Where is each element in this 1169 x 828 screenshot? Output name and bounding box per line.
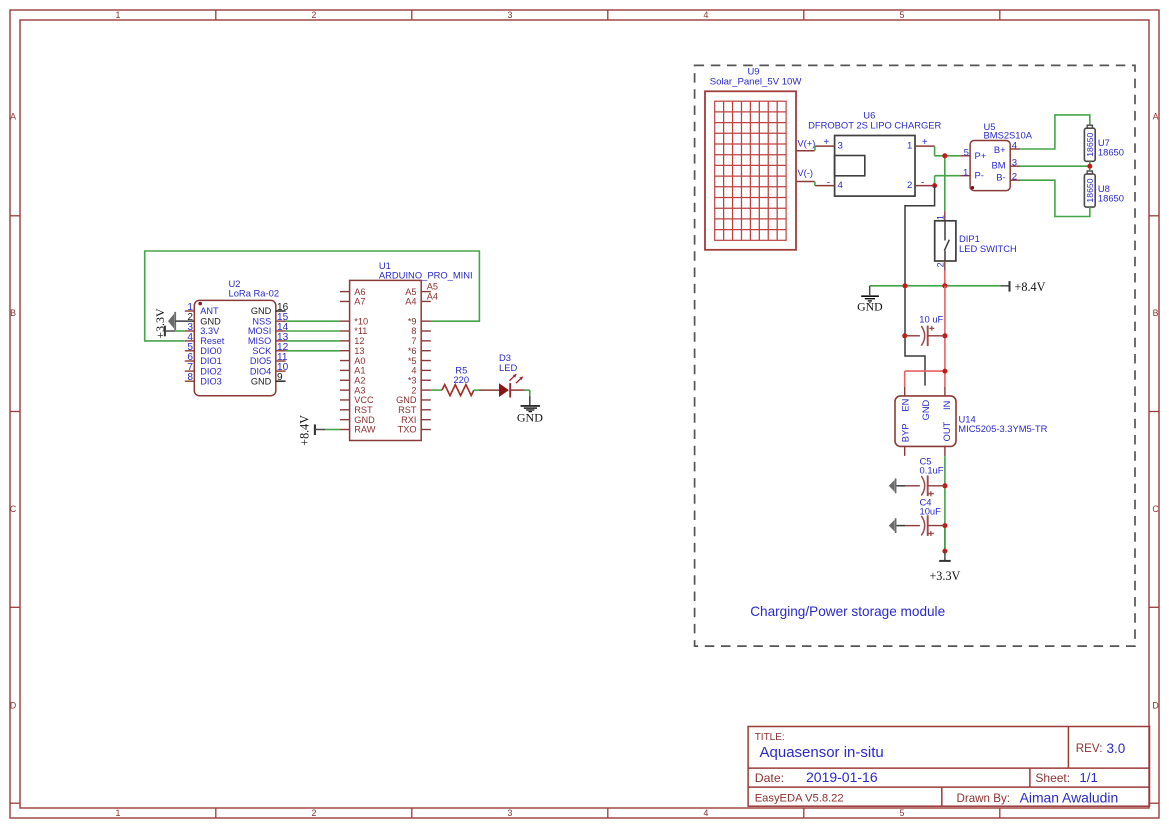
svg-text:10uF: 10uF — [920, 506, 942, 517]
svg-text:Sheet:: Sheet: — [1035, 771, 1070, 785]
svg-text:+8.4V: +8.4V — [1015, 280, 1046, 294]
svg-text:LED SWITCH: LED SWITCH — [959, 243, 1017, 254]
svg-text:B: B — [1153, 308, 1159, 318]
svg-text:1: 1 — [116, 808, 121, 818]
svg-text:4: 4 — [704, 808, 709, 818]
svg-text:A4: A4 — [427, 291, 438, 301]
svg-text:1: 1 — [907, 141, 912, 152]
svg-text:MISO: MISO — [248, 336, 271, 346]
svg-text:3.0: 3.0 — [1107, 741, 1126, 756]
svg-text:4: 4 — [411, 366, 416, 376]
svg-text:BM: BM — [992, 159, 1006, 170]
svg-text:GND: GND — [517, 411, 543, 425]
svg-text:8: 8 — [411, 326, 416, 336]
svg-text:OUT: OUT — [942, 421, 952, 441]
svg-text:A: A — [1153, 112, 1159, 122]
svg-text:EN: EN — [900, 399, 910, 412]
svg-text:*6: *6 — [408, 346, 417, 356]
svg-text:2: 2 — [935, 262, 945, 267]
svg-text:C: C — [1152, 504, 1159, 514]
svg-text:*10: *10 — [354, 316, 368, 326]
svg-text:GND: GND — [354, 415, 375, 425]
svg-text:ANT: ANT — [200, 306, 219, 316]
svg-text:P-: P- — [975, 170, 984, 181]
svg-text:3: 3 — [508, 10, 513, 20]
svg-text:-: - — [827, 177, 830, 188]
svg-text:A5: A5 — [405, 287, 416, 297]
svg-text:10 uF: 10 uF — [919, 314, 943, 325]
svg-text:2: 2 — [1012, 172, 1017, 183]
svg-text:A6: A6 — [354, 287, 365, 297]
svg-text:+: + — [922, 137, 928, 148]
svg-text:A1: A1 — [354, 366, 365, 376]
svg-text:REV:: REV: — [1076, 742, 1103, 755]
svg-text:4: 4 — [1012, 140, 1018, 151]
svg-text:0.1uF: 0.1uF — [920, 464, 944, 475]
svg-text:TITLE:: TITLE: — [755, 732, 785, 743]
svg-text:RST: RST — [398, 405, 417, 415]
svg-text:2: 2 — [411, 385, 416, 395]
svg-text:7: 7 — [411, 336, 416, 346]
svg-text:18650: 18650 — [1085, 178, 1095, 202]
svg-text:DIO5: DIO5 — [250, 356, 271, 366]
svg-text:EasyEDA V5.8.22: EasyEDA V5.8.22 — [755, 793, 844, 805]
svg-text:13: 13 — [354, 346, 364, 356]
svg-text:1: 1 — [935, 215, 945, 220]
svg-text:LoRa Ra-02: LoRa Ra-02 — [229, 288, 280, 299]
svg-text:18650: 18650 — [1085, 132, 1095, 156]
svg-text:Aiman Awaludin: Aiman Awaludin — [1020, 789, 1119, 805]
svg-text:1/1: 1/1 — [1079, 770, 1098, 785]
svg-text:5: 5 — [900, 808, 905, 818]
svg-text:4: 4 — [704, 10, 709, 20]
svg-text:+3.3V: +3.3V — [929, 569, 960, 583]
svg-text:Charging/Power storage module: Charging/Power storage module — [750, 604, 945, 619]
svg-text:3: 3 — [508, 808, 513, 818]
svg-text:-: - — [921, 177, 924, 188]
svg-text:12: 12 — [354, 336, 364, 346]
svg-text:B: B — [10, 308, 16, 318]
svg-text:5: 5 — [964, 147, 969, 158]
svg-text:RAW: RAW — [354, 425, 375, 435]
svg-text:2: 2 — [312, 10, 317, 20]
svg-text:V(+): V(+) — [797, 137, 815, 148]
svg-text:2019-01-16: 2019-01-16 — [806, 769, 878, 785]
svg-text:BMS2S10A: BMS2S10A — [984, 129, 1033, 140]
svg-text:220: 220 — [453, 374, 469, 385]
svg-text:18650: 18650 — [1098, 146, 1124, 157]
svg-text:Date:: Date: — [755, 771, 784, 785]
svg-text:TXO: TXO — [398, 425, 417, 435]
svg-text:SCK: SCK — [252, 346, 272, 356]
svg-text:U9: U9 — [748, 65, 760, 76]
svg-text:*5: *5 — [408, 356, 417, 366]
svg-text:DIO4: DIO4 — [250, 366, 271, 376]
svg-text:GND: GND — [396, 395, 417, 405]
svg-text:A5: A5 — [427, 281, 438, 291]
svg-text:MIC5205-3.3YM5-TR: MIC5205-3.3YM5-TR — [958, 423, 1047, 434]
svg-text:B-: B- — [996, 172, 1005, 183]
svg-text:*11: *11 — [354, 326, 367, 336]
svg-text:1: 1 — [116, 10, 121, 20]
svg-text:Reset: Reset — [200, 336, 224, 346]
svg-text:A2: A2 — [354, 375, 365, 385]
svg-text:DFROBOT 2S LIPO CHARGER: DFROBOT 2S LIPO CHARGER — [808, 120, 941, 131]
svg-text:3: 3 — [838, 141, 843, 152]
svg-text:A0: A0 — [354, 356, 365, 366]
svg-text:Aquasensor in-situ: Aquasensor in-situ — [760, 744, 884, 761]
svg-text:1: 1 — [963, 167, 968, 178]
svg-text:D: D — [1152, 701, 1158, 711]
svg-text:C: C — [10, 504, 17, 514]
svg-text:5: 5 — [900, 10, 905, 20]
svg-text:BYP: BYP — [900, 424, 910, 443]
svg-text:8: 8 — [187, 372, 193, 383]
svg-text:+8.4V: +8.4V — [297, 415, 311, 446]
svg-text:DIO3: DIO3 — [200, 376, 221, 386]
svg-text:3: 3 — [1012, 158, 1017, 169]
svg-text:GND: GND — [251, 376, 272, 386]
svg-text:DIO2: DIO2 — [200, 366, 221, 376]
svg-text:A: A — [10, 112, 16, 122]
svg-text:2: 2 — [907, 180, 912, 191]
svg-text:B+: B+ — [994, 144, 1006, 155]
svg-text:A3: A3 — [354, 385, 365, 395]
svg-text:IN: IN — [942, 401, 952, 410]
svg-text:GND: GND — [857, 299, 883, 313]
svg-text:+3.3V: +3.3V — [153, 308, 167, 339]
svg-text:A4: A4 — [405, 297, 416, 307]
svg-text:Drawn By:: Drawn By: — [957, 792, 1010, 805]
svg-text:Solar_Panel_5V 10W: Solar_Panel_5V 10W — [710, 76, 803, 87]
svg-text:18650: 18650 — [1098, 192, 1124, 203]
svg-text:GND: GND — [921, 399, 931, 420]
svg-text:MOSI: MOSI — [248, 326, 271, 336]
svg-text:V(-): V(-) — [797, 167, 813, 178]
svg-text:GND: GND — [200, 316, 221, 326]
svg-text:A7: A7 — [354, 297, 365, 307]
svg-text:*3: *3 — [408, 375, 417, 385]
svg-text:9: 9 — [277, 372, 283, 383]
svg-text:RST: RST — [354, 405, 373, 415]
svg-text:ARDUINO_PRO_MINI: ARDUINO_PRO_MINI — [379, 270, 473, 281]
svg-text:GND: GND — [251, 306, 272, 316]
svg-text:DIO1: DIO1 — [200, 356, 221, 366]
svg-text:NSS: NSS — [252, 316, 271, 326]
svg-text:2: 2 — [312, 808, 317, 818]
svg-text:RXI: RXI — [401, 415, 416, 425]
svg-text:DIO0: DIO0 — [200, 346, 221, 356]
svg-text:4: 4 — [838, 180, 844, 191]
svg-text:D: D — [10, 701, 16, 711]
svg-text:P+: P+ — [975, 150, 987, 161]
svg-text:*9: *9 — [408, 316, 417, 326]
svg-text:3.3V: 3.3V — [200, 326, 220, 336]
svg-text:VCC: VCC — [354, 395, 374, 405]
svg-text:+: + — [823, 137, 829, 148]
svg-text:LED: LED — [499, 362, 517, 373]
